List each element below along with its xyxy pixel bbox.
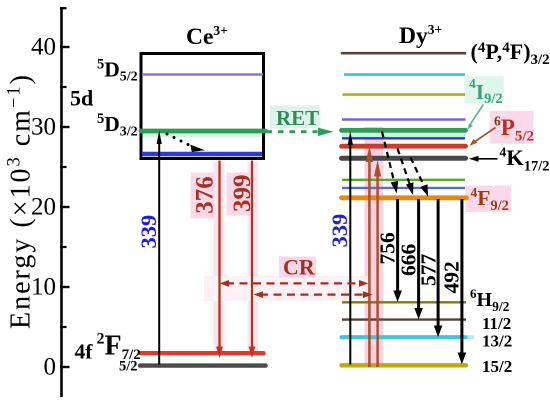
highlight band behind Dy up-arrows — [365, 127, 384, 367]
major tick 30 — [60, 126, 70, 128]
Dy excitation arrow 339 — [349, 145, 351, 365]
label background 4I9/2 — [464, 76, 504, 104]
major tick 20 — [60, 206, 70, 208]
CR dashed arrow upper — [226, 282, 362, 284]
svg-text:15/2: 15/2 — [482, 357, 512, 376]
Dy level 6H15/2 (dark yellow thick) — [342, 363, 467, 367]
minor tick 5 — [60, 326, 67, 328]
pointer arrow 6P5/2 — [475, 128, 496, 142]
Ce excitation arrow 339 — [158, 144, 160, 365]
Dy level green thin — [342, 179, 465, 181]
Dy upconversion arrow to 4K17/2 — [376, 176, 379, 367]
Dy level 6H9/2 (olive) — [342, 301, 466, 303]
Dy level 6H11/2 (brown) — [342, 318, 466, 320]
mint glow under Dy 4I9/2 level — [342, 133, 465, 138]
pointer arrow 4K17/2 — [478, 158, 498, 160]
highlight band behind Ce 376 arrow — [214, 162, 225, 352]
Dy emission arrow 666 — [417, 199, 420, 309]
pale cyan extension of 13/2 level — [465, 335, 474, 339]
multiphonon dashed arrow 3 — [411, 158, 426, 189]
major tick 10 — [60, 286, 70, 288]
major tick 40 — [60, 46, 70, 48]
Dy level periwinkle thin — [342, 187, 465, 189]
svg-text:CR: CR — [283, 255, 316, 280]
svg-text:40: 40 — [31, 34, 56, 61]
Dy level 6P5/2 (red thick) — [342, 144, 466, 149]
Ce level 5D3/2 (green) — [141, 129, 266, 134]
svg-text:4f: 4f — [75, 340, 94, 364]
Dy upconversion arrow to 6P5/2 — [368, 161, 371, 367]
minor tick 45 — [60, 7, 67, 9]
label background 4F9/2 — [466, 186, 512, 213]
svg-text:11/2: 11/2 — [482, 314, 511, 333]
major tick 0 — [60, 366, 70, 368]
Ce level 2F5/2 (gray) — [140, 363, 266, 367]
svg-text:0: 0 — [44, 354, 57, 381]
minor tick 35 — [60, 86, 67, 88]
Dy emission arrow 492 — [460, 199, 463, 354]
Ce emission arrow 376 — [218, 161, 220, 348]
svg-text:RET: RET — [276, 106, 319, 130]
RET dashed arrow — [267, 130, 318, 133]
Dy level dark-yellow upper — [343, 93, 466, 96]
Ce emission arrow 399 — [251, 161, 253, 348]
Ce level 2F7/2 (red) — [141, 351, 264, 355]
Dy emission arrow 577 — [437, 199, 440, 327]
svg-text:13/2: 13/2 — [482, 331, 512, 350]
y-axis — [60, 7, 63, 397]
label background 376 — [191, 173, 215, 219]
highlight band behind Ce 399 arrow — [248, 162, 259, 352]
svg-text:5/2: 5/2 — [119, 359, 138, 375]
Dy level purple — [342, 118, 466, 120]
svg-text:5d: 5d — [70, 86, 93, 111]
multiphonon dashed arrow 1 — [382, 132, 395, 185]
minor tick 25 — [60, 166, 67, 168]
svg-text:376: 376 — [192, 176, 219, 214]
pointer arrow 4I9/2 — [470, 105, 484, 125]
Ce level 5D5/2 (purple) — [142, 73, 263, 75]
multiphonon dashed arrow 2 — [398, 149, 411, 187]
Ce nonradiative dotted arrow — [166, 133, 205, 153]
svg-text:339: 339 — [136, 215, 161, 249]
CR dashed arrow lower — [260, 293, 366, 295]
Dy level 4K17/2 (gray thick) — [342, 156, 466, 161]
Dy level 4I9/2 (green thick) — [342, 128, 466, 133]
Dy level 6H13/2 (cyan thick) — [342, 335, 466, 339]
minor tick 15 — [60, 246, 67, 248]
svg-text:339: 339 — [327, 214, 352, 248]
mint glow under Ce 5D3/2 level — [141, 134, 266, 138]
Ce3+ box — [141, 54, 264, 159]
svg-text:Energy (×103 cm−1): Energy (×103 cm−1) — [5, 73, 37, 329]
Dy level cyan upper — [344, 73, 465, 76]
Dy level 4F9/2 (orange thick) — [342, 195, 467, 200]
label background CR — [279, 257, 316, 278]
label background 6P5/2 — [490, 111, 534, 144]
highlight band behind CR arrows — [204, 276, 370, 301]
Dy level blue — [342, 137, 465, 139]
svg-text:399: 399 — [229, 175, 256, 213]
svg-text:492: 492 — [439, 261, 463, 293]
Ce level lowest 5d (blue) — [142, 152, 262, 157]
label background 399 — [227, 173, 252, 216]
label background RET — [270, 106, 321, 129]
svg-text:577: 577 — [416, 254, 440, 287]
Dy emission arrow 756 — [396, 199, 399, 292]
Dy level (4P,4F)3/2 — [342, 52, 465, 55]
